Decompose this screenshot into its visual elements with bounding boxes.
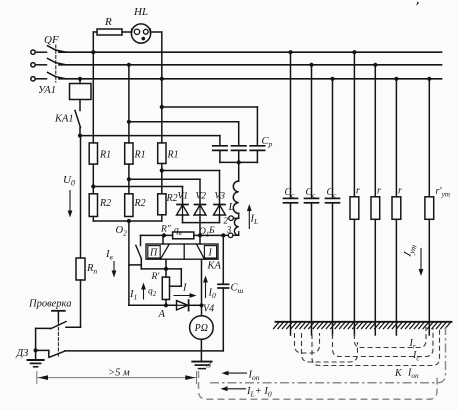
resistor R1 (col3)	[158, 143, 166, 164]
arrow I1	[143, 285, 145, 300]
wire: phase bus 1	[59, 51, 442, 53]
svg-text:ДЗ: ДЗ	[16, 348, 29, 359]
svg-text:R1: R1	[167, 150, 179, 161]
svg-text:L: L	[228, 201, 235, 213]
wire: phase bus 2	[59, 64, 442, 66]
svg-text:R1: R1	[99, 150, 111, 161]
resistor r1	[352, 50, 356, 54]
svg-text:V3: V3	[215, 192, 226, 202]
wire: O2 rail	[93, 220, 162, 222]
wire: rail to R1 chains and Cp1	[80, 135, 220, 137]
contact KA1	[75, 111, 81, 128]
circuit breaker QF	[31, 50, 35, 54]
capacitor Cp	[232, 145, 246, 147]
capacitor Cc2	[309, 63, 313, 67]
svg-text:3: 3	[206, 361, 212, 371]
svg-text:>5 м: >5 м	[108, 368, 130, 379]
svg-text:QF: QF	[44, 34, 59, 46]
wire: return curl U2	[302, 333, 358, 362]
resistor R2 (col1)	[89, 194, 97, 217]
node V4	[199, 303, 203, 307]
coil YA1	[78, 77, 82, 81]
svg-text:V1: V1	[178, 192, 189, 202]
svg-text:I: I	[182, 283, 187, 294]
svg-text:r: r	[377, 186, 381, 197]
node DZ	[34, 348, 38, 352]
button Proverka	[52, 310, 65, 312]
relay KA block	[146, 244, 218, 259]
resistor R2 (col3)	[158, 194, 166, 215]
arrow IL	[248, 207, 250, 230]
ground: earth surface	[276, 321, 452, 323]
diode V3	[214, 204, 225, 206]
capacitor Cp	[250, 145, 264, 147]
arrow I (shunt)	[174, 295, 195, 297]
resistor r_ut	[427, 77, 431, 81]
resistor R'' qv	[173, 232, 194, 239]
node: tap 2	[229, 216, 234, 221]
resistor R1 (col2)	[125, 143, 133, 164]
wire: return path Ir	[354, 327, 426, 348]
svg-text:HL: HL	[133, 6, 148, 18]
node A	[164, 303, 168, 307]
wire: return path Ic	[333, 327, 434, 357]
wire: branch to Cp2	[129, 121, 239, 123]
svg-text:Б: Б	[208, 226, 215, 236]
node: column 2 from bus2	[128, 65, 130, 143]
inductor L	[233, 181, 238, 235]
svg-text:V2: V2	[196, 192, 207, 202]
wire: node line O1-B with R''	[141, 234, 173, 236]
svg-text:R2: R2	[134, 198, 146, 209]
resistor R1 (col1)	[89, 143, 97, 164]
capacitor Cc3	[330, 77, 334, 81]
wire: B node down	[222, 235, 224, 284]
wire: tap loop	[166, 268, 181, 270]
svg-text:КА1: КА1	[54, 114, 74, 125]
svg-text:r: r	[398, 186, 402, 197]
capacitor Csh	[218, 283, 229, 285]
wire: phase bus 3	[59, 78, 442, 80]
wire: return path K Iop	[312, 327, 440, 366]
resistor R	[93, 31, 97, 33]
resistor R2 (col2)	[125, 194, 133, 217]
wire: KA to V4 node	[201, 259, 203, 305]
svg-text:R′: R′	[151, 272, 161, 282]
wire: bottom IL+I0 path	[199, 371, 438, 399]
wire: drops to relay block	[162, 235, 164, 244]
arrow Iut	[420, 248, 422, 274]
resistor r3	[394, 77, 398, 81]
svg-text:R2: R2	[99, 198, 111, 209]
resistor Rp	[80, 136, 82, 258]
wire: col3 tap to V3	[160, 168, 164, 172]
svg-text:R2: R2	[166, 193, 178, 204]
ground Z	[192, 361, 211, 363]
svg-text:r: r	[356, 186, 360, 197]
svg-text:П: П	[149, 247, 158, 258]
resistor R' q2	[165, 259, 167, 277]
meter POm	[201, 305, 203, 315]
ground DZ	[35, 350, 37, 359]
svg-text:А: А	[158, 309, 166, 320]
svg-text:R: R	[104, 16, 112, 28]
wire: col2 tap to V2	[127, 177, 131, 181]
arrow U0	[69, 190, 71, 215]
stray ink mark	[416, 2, 419, 6]
diode V2	[195, 204, 206, 206]
wire: branch to Cp3	[162, 106, 258, 108]
svg-text:I: I	[208, 247, 213, 258]
node: column 3 from bus3	[161, 32, 163, 143]
diode V4	[177, 301, 189, 310]
wire: node A line	[129, 304, 177, 306]
capacitor Cp	[213, 145, 227, 147]
lamp HL	[131, 24, 150, 43]
node: terminal 3	[228, 233, 233, 238]
dimension >5m	[37, 372, 197, 384]
svg-text:V4: V4	[203, 304, 214, 315]
wire: long Iop dash-dot	[210, 327, 446, 383]
wire: I1 branch down	[128, 221, 130, 305]
resistor r2	[373, 63, 377, 67]
wire: return curl U1	[295, 333, 320, 353]
wire: Cp bottom rail	[220, 161, 258, 163]
contact DZ knife	[36, 349, 49, 351]
arrow I0	[205, 278, 207, 298]
capacitor Cc1	[288, 50, 292, 54]
svg-text:R1: R1	[134, 150, 146, 161]
svg-text:3: 3	[226, 225, 232, 235]
wire: diode cathode rail	[183, 222, 220, 224]
svg-text:УА1: УА1	[38, 85, 56, 96]
svg-text:Проверка: Проверка	[28, 299, 71, 310]
wire: bottom return line	[65, 350, 224, 352]
wire: I1 stub	[129, 264, 141, 266]
svg-text:КА: КА	[207, 261, 222, 272]
svg-text:РΩ: РΩ	[194, 323, 208, 334]
arrow IL+I0 left	[223, 388, 246, 390]
node: col1 top wire	[92, 32, 94, 143]
arrow Iv	[113, 261, 115, 275]
contact of KA (left)	[136, 245, 142, 258]
svg-text:R″: R″	[160, 225, 172, 235]
wire: col1 tap to V1	[91, 184, 95, 188]
arrow Iop left	[224, 372, 247, 374]
diode V1	[177, 204, 188, 206]
